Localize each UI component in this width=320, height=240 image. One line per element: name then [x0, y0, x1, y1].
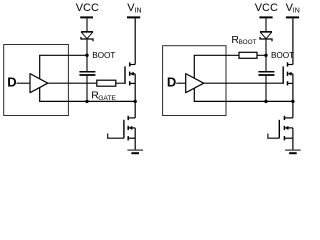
- svg-text:BOOT: BOOT: [239, 39, 257, 46]
- node: cap to rail junction (right): [264, 100, 267, 103]
- wire: low-side gate lead: [108, 134, 124, 139]
- bootstrap capacitor C1: [79, 55, 95, 101]
- node: rail to FET source junction (right): [291, 100, 294, 103]
- VCC label (right): [255, 2, 278, 14]
- node: cap to rail junction: [85, 100, 88, 103]
- wire: V_IN to drain (right): [292, 18, 294, 64]
- node BOOT junction dot (right): [264, 54, 267, 57]
- V_IN label (right): [286, 2, 300, 14]
- bootstrap capacitor C2: [258, 55, 274, 101]
- VCC terminal: [80, 17, 93, 31]
- BOOT label (right): [271, 50, 294, 60]
- driver box U2: [163, 46, 226, 116]
- svg-text:VCC: VCC: [255, 2, 278, 14]
- wire: switch-node rail (right): [194, 100, 293, 102]
- node BOOT-rail loop wire (driver supply loop): [39, 55, 87, 101]
- wire: driver output: [48, 82, 97, 84]
- resistor R_BOOT: [239, 52, 257, 58]
- transistor Q1 (high-side NMOS): [125, 62, 135, 101]
- svg-text:IN: IN: [293, 7, 300, 14]
- transistor Q3 (high-side NMOS, right): [283, 62, 293, 101]
- svg-text:VCC: VCC: [76, 2, 99, 14]
- transistor Q2 (low-side NMOS): [124, 101, 135, 150]
- wire: switch-node rail: [39, 100, 135, 102]
- op-amp driver buffer triangle (right): [186, 74, 204, 93]
- wire: V_IN to drain: [134, 18, 136, 64]
- node BOOT junction dot: [85, 54, 88, 57]
- input label D: [7, 74, 16, 89]
- label R_BOOT: [231, 34, 256, 46]
- svg-text:D: D: [7, 74, 16, 89]
- V_IN terminal: [127, 16, 140, 18]
- wire: input lead: [17, 82, 31, 84]
- driver box U1: [4, 45, 69, 116]
- node BOOT-rail loop wire (driver supply loop, right): [194, 55, 239, 101]
- node: rail to FET source junction: [134, 100, 137, 103]
- svg-text:BOOT: BOOT: [92, 50, 115, 60]
- input label D (right): [167, 74, 176, 89]
- ground: [127, 150, 143, 153]
- wire: resistor to BOOT node: [257, 54, 266, 56]
- svg-text:D: D: [167, 74, 176, 89]
- VCC terminal (right): [259, 17, 272, 31]
- svg-text:BOOT: BOOT: [271, 50, 294, 60]
- V_IN label: [127, 2, 141, 14]
- transistor Q4 (low-side NMOS, right): [279, 101, 293, 150]
- ground (right): [285, 150, 301, 153]
- bootstrap schottky diode D2: [260, 32, 272, 56]
- wire: driver output direct to gate: [204, 82, 284, 84]
- BOOT label: [92, 50, 115, 60]
- svg-text:GATE: GATE: [98, 95, 116, 102]
- svg-text:IN: IN: [135, 7, 142, 14]
- bootstrap schottky diode D1: [81, 32, 93, 56]
- label R_GATE: [91, 89, 116, 101]
- wire: low-side gate lead (right): [268, 134, 279, 139]
- wire: input lead (right): [176, 82, 185, 84]
- wire: gate series: [116, 82, 126, 84]
- op-amp driver buffer triangle: [30, 74, 48, 93]
- V_IN terminal (right): [286, 16, 299, 18]
- VCC label: [76, 2, 99, 14]
- resistor R_GATE: [97, 80, 116, 86]
